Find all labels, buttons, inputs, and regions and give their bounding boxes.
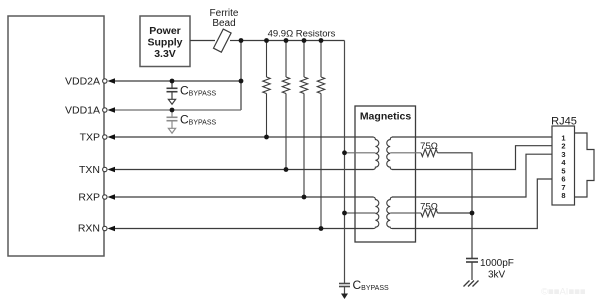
resistor R1 49.9 [263,41,270,138]
wire VDD2A [112,80,241,82]
node VDD1A cap tap [170,108,175,113]
node ferrite/bus [239,38,244,43]
transformer T2 primary winding [373,197,379,229]
wire T2 secondary top to RJ45 pin3 [392,154,552,197]
svg-text:Magnetics: Magnetics [360,111,412,123]
wire ferrite bead to bus [230,40,241,42]
svg-text:©■■AI■■■: ©■■AI■■■ [541,287,586,298]
transformer T1 primary winding [373,137,379,170]
svg-text:VDD1A: VDD1A [65,105,100,117]
svg-text:Supply: Supply [147,37,182,49]
node T1 centre tap [342,150,347,155]
wire center-tap vertical [344,41,346,284]
capacitor C3 1000pF 3kV [466,259,478,281]
wire power supply to ferrite bead [190,40,215,42]
svg-text:TXP: TXP [80,132,100,144]
wire T1 secondary bottom to RJ45 pin2 [392,146,552,170]
transformer T2 secondary winding [387,197,393,229]
node bus R1 [264,38,269,43]
svg-text:TXN: TXN [79,164,100,176]
node 75 ohm junction [470,211,475,216]
ferrite bead FB1 [213,29,231,52]
pin circle RXN [103,226,107,230]
transformer T2 primary centre tap [345,212,376,214]
wire RXN [112,228,374,230]
arrowhead TXP [108,134,116,140]
capacitor C1 bypass VDD2A [167,81,178,104]
node bus R2 [284,38,289,43]
wire TXN [112,169,374,171]
chassis ground [464,281,479,287]
RJ45 connector body [552,126,575,205]
node R1 TXP [264,135,269,140]
arrow to ground bottom [341,294,348,300]
arrowhead TXN [108,167,116,173]
wire RXP [112,196,374,198]
capacitor C2 bypass VDD1A [167,110,178,133]
svg-text:RXP: RXP [78,192,100,204]
resistor R3 49.9 [300,41,307,198]
pin circle RXP [103,195,107,199]
arrowhead RXN [108,226,116,232]
pin circle VDD2A [103,79,107,83]
wire R6 to ground cap [438,212,473,214]
svg-text:49.9Ω Resistors: 49.9Ω Resistors [268,29,336,40]
node VDD2A drop [239,79,244,84]
resistor R4 49.9 [317,41,324,229]
pin circle TXP [103,135,107,139]
power supply box [140,16,190,67]
node VDD2A cap tap [170,79,175,84]
transformer T1 secondary centre tap to 75 ohm [390,152,421,154]
transformer T1 primary centre tap [345,152,376,154]
resistor R2 49.9 [282,41,289,170]
IC box U1 [8,16,104,256]
arrowhead RXP [108,194,116,200]
transformer T1 secondary winding [387,137,393,170]
svg-text:1000pF: 1000pF [480,258,514,269]
svg-text:3kV: 3kV [488,270,506,281]
node R4 RXN [319,226,324,231]
wire T1 secondary top to RJ45 pin1 [392,136,552,138]
resistor R5 75 ohm [421,149,438,156]
pin circle TXN [103,167,107,171]
node T2 centre tap [342,211,347,216]
transformer T2 secondary centre tap to 75 ohm [390,212,421,214]
svg-text:VDD2A: VDD2A [65,76,100,88]
node R3 RXP [302,195,307,200]
capacitor C4 bypass bottom [339,284,350,294]
wire R5 to ground cap [438,153,473,213]
wire VDD1A [112,109,241,111]
node bus R3 [302,38,307,43]
arrowhead VDD1A [108,107,116,113]
svg-text:Bead: Bead [212,18,235,29]
wire TXP [112,136,374,138]
resistor R6 75 ohm [421,209,438,216]
wire 3.3V bus [241,40,345,42]
RJ45 pin numbers [561,133,566,200]
wire T2 secondary bottom to RJ45 pin6 [392,179,552,229]
arrowhead VDD2A [108,78,116,84]
svg-text:3.3V: 3.3V [154,48,176,60]
svg-text:Power: Power [149,25,181,37]
pin circle VDD1A [103,108,107,112]
wire ferrite drop to VDD2A/VDD1A [240,41,242,111]
wire down to 1000pF cap [471,213,473,258]
node R2 TXN [284,167,289,172]
RJ45 plug outline [575,133,595,197]
svg-text:RXN: RXN [78,223,100,235]
node bus R4 [319,38,324,43]
svg-text:8: 8 [561,191,565,200]
magnetics box [355,106,416,242]
